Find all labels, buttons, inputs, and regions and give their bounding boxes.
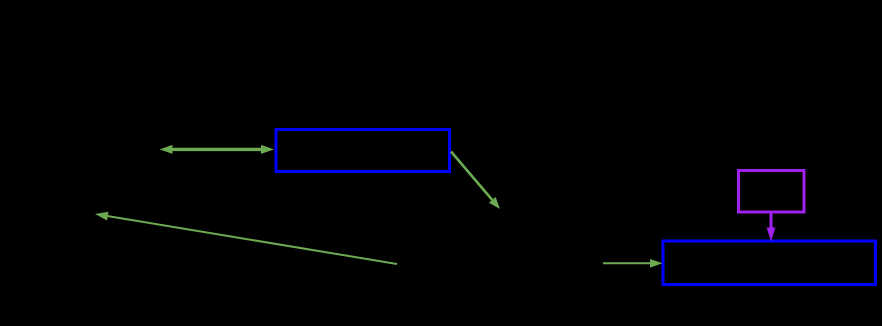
arrowhead into B2: [650, 259, 663, 268]
arrowhead of diagonal arrow: [489, 197, 500, 209]
arrowhead left of double arrow: [160, 145, 173, 154]
box B2 (blue rectangle bottom right): [663, 241, 876, 285]
box P1 (purple rectangle): [739, 171, 805, 213]
wire: purple arrow from P1 to B2: [770, 214, 773, 229]
box B1 (blue rectangle top middle): [276, 130, 450, 172]
wire: green arrow into B2: [603, 262, 651, 264]
arrowhead of purple arrow: [767, 228, 776, 242]
arrowhead right of double arrow: [261, 145, 274, 154]
wire: double-headed green arrow shaft: [171, 148, 263, 151]
arrowhead of long arrow: [95, 212, 109, 221]
wire: long green arrow to lower left: [108, 216, 397, 264]
wire: diagonal green arrow from B1: [451, 152, 492, 200]
